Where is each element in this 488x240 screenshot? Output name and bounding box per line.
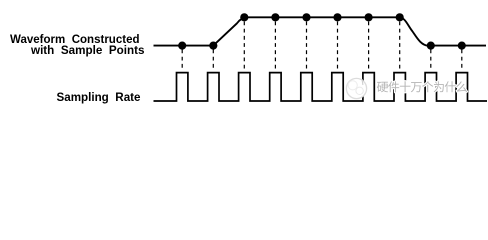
svg-text:with Sample Points: with Sample Points <box>30 43 145 57</box>
svg-text:Sampling Rate: Sampling Rate <box>57 90 141 104</box>
